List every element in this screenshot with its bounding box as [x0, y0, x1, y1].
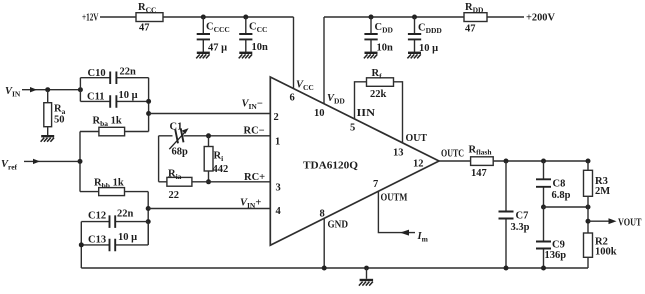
svg-text:8: 8 [320, 209, 325, 220]
node junction VIN- tap [146, 111, 151, 116]
resistor R3 2M [584, 161, 611, 234]
node junction C8/C9 [541, 205, 546, 210]
svg-text:47: 47 [465, 24, 476, 35]
svg-text:2M: 2M [595, 186, 610, 197]
wire RDD to +200V [487, 16, 524, 18]
wire VDD down to pin 10 [323, 17, 325, 104]
resistor Rba 1k [80, 116, 149, 136]
current Im arrow [400, 230, 429, 244]
pin 8 GND label [320, 209, 349, 231]
wire right edge of C10/C11 block down to Rba [148, 78, 150, 132]
svg-text:10n: 10n [252, 42, 269, 53]
capacitor C10 22n [80, 67, 148, 102]
svg-text:10 μ: 10 μ [419, 43, 438, 54]
node junction divider mid [586, 205, 591, 210]
svg-text:6: 6 [290, 93, 295, 104]
node junction VIN at C10 block [78, 87, 83, 92]
wire C8/C9 junction to R3/R2 [544, 206, 589, 208]
node junction C7 tap [504, 159, 509, 164]
svg-text:136p: 136p [545, 250, 567, 261]
node VOUT output [588, 218, 642, 229]
capacitor C1 68p trimmer [159, 122, 271, 182]
svg-text:5: 5 [350, 123, 355, 134]
svg-text:10 μ: 10 μ [118, 232, 137, 243]
resistor Rf 22k feedback [355, 68, 403, 143]
svg-text:22k: 22k [370, 89, 387, 100]
svg-text:3: 3 [276, 183, 281, 194]
svg-text:4: 4 [276, 206, 282, 217]
pin 4 VIN+ label [240, 198, 282, 218]
capacitor CDD 10n [364, 17, 393, 54]
ground under Ra [41, 136, 55, 142]
svg-text:TDA6120Q: TDA6120Q [303, 160, 358, 172]
node junction R3 top [586, 159, 591, 164]
node junction C13 left [79, 242, 84, 247]
capacitor CCCC 47u [197, 17, 230, 54]
svg-text:7: 7 [373, 179, 378, 190]
svg-text:C7: C7 [516, 211, 529, 222]
capacitor C13 10u [81, 222, 148, 252]
capacitor C9 136p [536, 207, 566, 268]
pin 12 OUTC label [413, 149, 464, 170]
svg-text:68p: 68p [172, 147, 189, 158]
pin 6 VCC label [290, 80, 314, 104]
svg-text:22n: 22n [120, 67, 137, 78]
svg-text:Rba 1k: Rba 1k [93, 116, 122, 129]
svg-text:10 μ: 10 μ [119, 90, 138, 101]
svg-text:C8: C8 [553, 179, 566, 190]
svg-text:1: 1 [275, 137, 280, 148]
pin 3 RC+ label [244, 172, 281, 194]
wire left edge C12/C13 down to ground rail [80, 222, 82, 268]
node junction C7 bottom [504, 266, 509, 271]
svg-text:RC−: RC− [244, 126, 265, 137]
svg-text:2: 2 [274, 112, 279, 123]
node Vref input [1, 159, 80, 172]
pin 7 OUTM label [373, 179, 408, 204]
svg-text:22n: 22n [117, 209, 134, 220]
node junction CC rail at CCCC [201, 15, 206, 20]
resistor Ria 22 [159, 169, 271, 202]
wire Rflash to R3 [493, 160, 588, 162]
capacitor C12 22n [81, 209, 148, 228]
node junction CC rail at CCC [243, 15, 248, 20]
wire VIN- to pin 2 [149, 113, 271, 115]
svg-text:C1: C1 [170, 122, 183, 133]
svg-text:22: 22 [169, 190, 180, 201]
ground under CDD [364, 53, 378, 59]
node junction VIN+ tap [146, 206, 151, 211]
svg-text:10: 10 [314, 108, 325, 119]
node junction C9 bottom [541, 266, 546, 271]
svg-text:3.3p: 3.3p [511, 222, 530, 233]
wire OUTC to Rflash [439, 160, 471, 162]
resistor Ri 442 [204, 136, 228, 182]
resistor RDD 47 [464, 2, 487, 35]
resistor Rflash 147 [469, 145, 494, 180]
svg-text:OUT: OUT [406, 133, 428, 144]
svg-text:GND: GND [328, 220, 349, 231]
node junction C8 tap [541, 159, 546, 164]
node junction DD rail at CDDD [412, 15, 417, 20]
pin 10 VDD label [314, 93, 345, 119]
capacitor CDDD 10u [408, 17, 443, 54]
svg-text:C9: C9 [552, 240, 565, 251]
wire GND pin 8 down [323, 218, 325, 268]
svg-text:12: 12 [413, 159, 424, 170]
svg-text:VOUT: VOUT [618, 218, 642, 229]
resistor R2 100k [584, 233, 617, 268]
svg-text:C12: C12 [88, 211, 106, 222]
node junction GND rail [322, 266, 327, 271]
capacitor C8 6.8p [536, 161, 571, 207]
svg-text:6.8p: 6.8p [552, 190, 571, 201]
node junction Ri bottom [206, 179, 211, 184]
node junction Ri top [206, 133, 211, 138]
capacitor C7 3.3p [499, 161, 530, 268]
node junction DD rail at CDD [369, 15, 374, 20]
ground symbol bottom [359, 266, 373, 286]
ground under CCCC [196, 53, 210, 59]
wire DD rail [324, 16, 464, 18]
node junction C11 right [146, 99, 151, 104]
svg-text:10n: 10n [377, 43, 394, 54]
capacitor CCC 10n [239, 17, 268, 53]
svg-text:OUTC: OUTC [441, 149, 464, 160]
svg-text:+12V: +12V [82, 12, 99, 24]
svg-text:442: 442 [213, 164, 229, 175]
wire +12V to RCC [100, 16, 136, 18]
svg-text:50: 50 [54, 115, 65, 126]
svg-text:147: 147 [471, 168, 487, 179]
wire OUTM pin 7 down [378, 191, 415, 233]
svg-text:IIN: IIN [357, 108, 376, 119]
node junction VOUT tap [586, 219, 591, 224]
node +200V label [526, 12, 555, 24]
node +12V label [82, 12, 99, 24]
wire vertical Vref node [79, 132, 81, 192]
svg-text:C13: C13 [88, 235, 106, 246]
svg-text:47: 47 [139, 23, 150, 34]
svg-text:C10: C10 [88, 68, 106, 79]
node VIN input [5, 86, 80, 99]
node junction C12 right [146, 219, 151, 224]
op-amp U1 TDA6120Q [270, 77, 439, 245]
svg-text:+200V: +200V [526, 12, 555, 24]
node junction Vref tap [78, 159, 83, 164]
wire VCC down to pin 6 [293, 17, 295, 89]
wire CC rail [163, 16, 294, 18]
ground under CCC [239, 53, 253, 59]
resistor Rbb 1k [80, 178, 148, 196]
svg-text:OUTM: OUTM [381, 193, 408, 204]
wire VIN+ to pin 4 [148, 208, 270, 210]
svg-text:100k: 100k [595, 247, 617, 258]
svg-text:C11: C11 [87, 92, 105, 103]
svg-text:47 μ: 47 μ [208, 43, 227, 54]
resistor RCC 47 [136, 2, 163, 34]
node junction VIN at Ra [45, 87, 50, 92]
pin 1 RC- label [244, 126, 281, 148]
resistor Ra 50 [44, 90, 66, 136]
pin 5 IIN label [350, 108, 375, 134]
svg-text:13: 13 [393, 148, 404, 159]
pin 13 OUT label [393, 133, 427, 159]
wire bottom ground rail [81, 267, 588, 269]
wire Rbb corner down to C13 row [147, 192, 149, 245]
pin 2 VIN- label [242, 99, 279, 124]
capacitor C11 10u [80, 90, 148, 108]
ground under CDDD [407, 53, 421, 59]
